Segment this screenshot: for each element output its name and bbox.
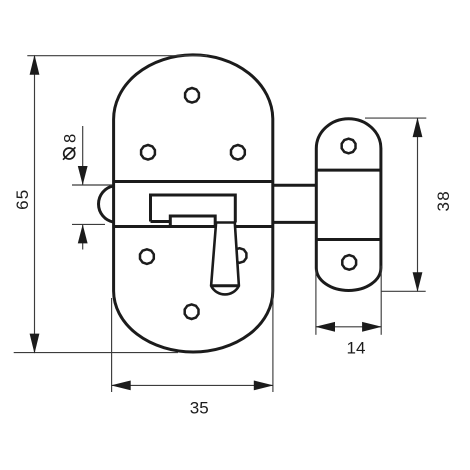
dim 14 ext left bbox=[315, 270, 317, 335]
svg-text:65: 65 bbox=[13, 189, 32, 210]
dim 35 line bbox=[112, 384, 273, 386]
dim 38 ext bottom bbox=[381, 290, 426, 292]
svg-text:38: 38 bbox=[434, 190, 453, 211]
dim 65 ext top bbox=[27, 55, 207, 57]
node step-tab bbox=[170, 216, 215, 227]
wire slot-bottom bbox=[151, 220, 171, 223]
dim 35 arrow right bbox=[254, 381, 274, 391]
dim 35 ext left bbox=[111, 298, 113, 392]
node keeper-plate bbox=[316, 119, 381, 291]
dim 14 line bbox=[316, 326, 381, 328]
node hole-upper-left bbox=[141, 145, 155, 160]
dim dia8 line bottom bbox=[82, 224, 84, 249]
wire keeper-bridge-bottom bbox=[316, 238, 381, 241]
svg-text:14: 14 bbox=[347, 339, 366, 358]
dim 38 arrow top bbox=[413, 118, 423, 138]
dim 38 ext top bbox=[365, 117, 426, 119]
dim 35 arrow left bbox=[111, 381, 131, 391]
dim 38 line bbox=[417, 118, 419, 291]
dim 65 arrow bottom bbox=[30, 334, 40, 354]
dim 65 arrow top bbox=[30, 55, 40, 75]
dim dia8 ext top bbox=[72, 184, 112, 186]
wire housing-bottom-right bbox=[235, 225, 273, 228]
wire keeper-bridge-top bbox=[316, 169, 381, 172]
svg-text:35: 35 bbox=[190, 399, 209, 418]
node hole-lower-left bbox=[140, 249, 154, 264]
dim 65 ext bottom bbox=[14, 352, 178, 354]
node hole-upper-right bbox=[231, 145, 245, 160]
wire bolt-rod-top bbox=[273, 184, 317, 187]
dim dia8 line top bbox=[82, 126, 84, 185]
dim 14 ext right bbox=[380, 266, 382, 335]
dim dia8 arrow down bbox=[78, 166, 88, 185]
node hole-hidden-right bbox=[233, 248, 247, 263]
wire housing-top bbox=[114, 180, 273, 183]
wire handle-chord bbox=[211, 284, 239, 287]
dim dia8 ext bottom bbox=[72, 223, 105, 225]
dim dia8 arrow up bbox=[78, 224, 88, 243]
svg-text:8: 8 bbox=[61, 134, 79, 143]
dim 35 ext right bbox=[272, 280, 274, 392]
node hole-top bbox=[185, 88, 199, 103]
node handle-knob bbox=[211, 223, 239, 295]
label dia8 symbol bbox=[64, 148, 75, 159]
dim 14 arrow left bbox=[315, 322, 335, 332]
dim 14 arrow right bbox=[362, 322, 382, 332]
wire housing-bottom-left bbox=[114, 225, 217, 228]
node bolt-left-cap bbox=[99, 186, 114, 222]
node keeper-hole-bottom bbox=[342, 255, 356, 270]
node body-plate bbox=[114, 55, 273, 352]
node hole-bottom bbox=[185, 304, 199, 319]
dim 65 line bbox=[34, 56, 36, 353]
wire bolt-rod-bottom bbox=[273, 221, 317, 224]
node keeper-hole-top bbox=[342, 139, 356, 154]
node slide-slot bbox=[151, 195, 236, 223]
dim 38 arrow bottom bbox=[413, 272, 423, 292]
